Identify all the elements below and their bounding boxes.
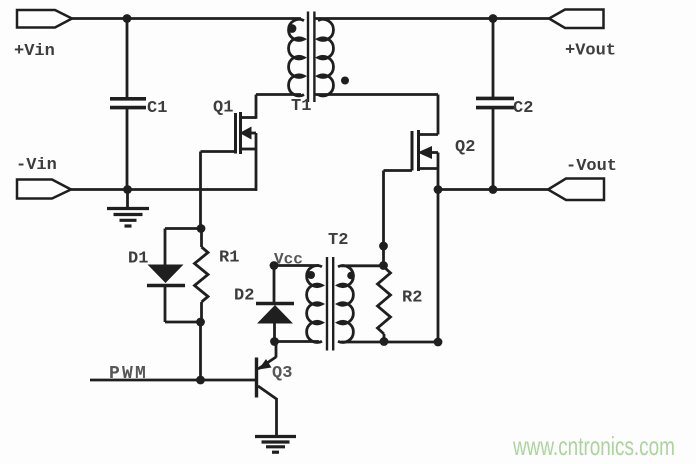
node junction gate/R1/D1 (197, 224, 206, 233)
transistor Q3 (257, 342, 277, 437)
wire D2 anode lead (273, 324, 276, 342)
resistor R1 (195, 229, 209, 323)
node junction T2 secondary top / R2 (379, 261, 388, 270)
svg-text:C1: C1 (147, 99, 167, 118)
svg-text:www.cntronics.com: www.cntronics.com (512, 431, 675, 461)
transformer T2 core (327, 257, 333, 351)
wire PWM input (90, 379, 255, 382)
svg-text:Q2: Q2 (455, 138, 475, 157)
wire T2 secondary top to R2 node (341, 264, 384, 267)
T1 primary phase dot (288, 24, 297, 33)
capacitor C1 (110, 99, 146, 108)
transformer T2 primary winding (307, 266, 322, 343)
capacitor C2 (476, 98, 514, 107)
wire R1 bottom to PWM junction (199, 322, 202, 380)
wire C1 upper lead (126, 19, 129, 98)
transformer T1 primary winding (289, 19, 304, 96)
wire Q2 gate riser (382, 171, 385, 266)
connector +Vin (17, 10, 72, 28)
svg-text:-Vout: -Vout (566, 157, 617, 176)
svg-text:R1: R1 (219, 249, 239, 268)
wire top rail +Vin to T1 primary top (72, 17, 301, 20)
wire D2 cathode lead (273, 266, 276, 304)
svg-text:R2: R2 (402, 289, 422, 308)
mosfet Q1 (201, 95, 257, 191)
wire -Vin rail (71, 188, 257, 191)
connector +Vout (549, 10, 604, 29)
svg-text:Q3: Q3 (272, 364, 292, 383)
svg-text:+Vout: +Vout (565, 42, 616, 61)
T2 secondary phase dot (347, 272, 355, 280)
node dot on gate riser (379, 242, 388, 251)
node junction R2 bottom (380, 337, 389, 346)
node junction PWM (196, 376, 205, 385)
wire C2 lower lead (492, 109, 495, 190)
connector -Vin (17, 180, 71, 199)
transformer T1 secondary winding (318, 19, 333, 96)
wire D1 bottom branch (164, 287, 167, 322)
diode D2 (256, 304, 294, 324)
wire D1 top branch (165, 227, 201, 230)
wire Q1 gate riser (199, 152, 202, 229)
wire T2 secondary bottom rail (341, 341, 438, 344)
transformer T1 core (308, 12, 314, 103)
connector -Vout (548, 179, 604, 201)
node Vcc junction (270, 261, 279, 270)
node junction +Vout/C2 (489, 14, 498, 23)
svg-text:+Vin: +Vin (14, 42, 55, 61)
T1 secondary phase dot (341, 77, 349, 85)
svg-text:D2: D2 (234, 287, 254, 306)
wire T1 primary bottom to Q1 drain (256, 93, 301, 96)
svg-text:C2: C2 (513, 99, 533, 118)
node junction +Vin/C1 (123, 14, 132, 23)
svg-text:PWM: PWM (109, 364, 148, 384)
svg-text:T2: T2 (328, 231, 348, 250)
node junction Q2 source corner (434, 338, 443, 347)
T2 primary phase dot (307, 271, 315, 279)
svg-text:T1: T1 (291, 97, 311, 116)
ground GND1 (107, 209, 149, 227)
svg-text:D1: D1 (128, 250, 148, 269)
node junction Q2 source / -Vout (434, 185, 443, 194)
wire C2 upper lead (492, 19, 495, 98)
ground GND2 under Q3 (255, 437, 296, 453)
transformer T2 secondary winding (338, 266, 353, 343)
diode D1 (147, 265, 185, 286)
wire T1 secondary top to +Vout (315, 17, 549, 20)
resistor R2 (378, 266, 391, 342)
mosfet Q2 (384, 130, 439, 342)
node junction R1/D1 bottom (196, 318, 205, 327)
node junction D2/T2/Q3 (270, 337, 279, 346)
node junction -Vin/C1/ground (123, 185, 132, 194)
wire ground stub (126, 190, 129, 208)
wire to T2 primary bottom (275, 340, 320, 343)
wire T1 secondary bottom to Q2 drain (315, 93, 438, 96)
wire C1 lower lead (126, 109, 129, 190)
svg-text:Q1: Q1 (213, 99, 233, 118)
wire Vcc to T2 primary top (274, 264, 319, 267)
node junction C2 / -Vout (489, 185, 498, 194)
svg-text:-Vin: -Vin (16, 156, 57, 175)
wire -Vout rail (438, 188, 548, 191)
